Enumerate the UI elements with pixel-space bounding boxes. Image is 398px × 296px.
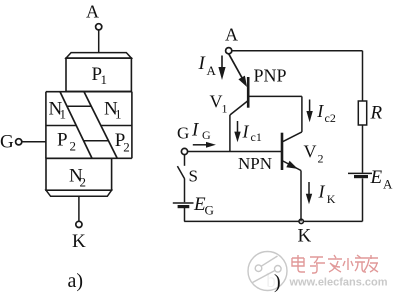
- svg-text:I: I: [318, 182, 326, 202]
- svg-text:1: 1: [222, 101, 228, 115]
- svg-text:I: I: [242, 121, 250, 141]
- svg-text:G: G: [0, 132, 14, 153]
- svg-text:A: A: [207, 63, 217, 78]
- svg-text:2: 2: [318, 152, 324, 166]
- svg-text:PNP: PNP: [254, 66, 287, 86]
- svg-text:A: A: [86, 2, 99, 22]
- svg-text:A: A: [383, 177, 393, 192]
- svg-text:): ): [274, 271, 281, 293]
- svg-text:I: I: [316, 101, 324, 121]
- svg-text:2: 2: [80, 175, 87, 190]
- svg-text:www.elecfans.com: www.elecfans.com: [289, 277, 388, 289]
- svg-text:2: 2: [70, 139, 77, 154]
- svg-text:a): a): [68, 270, 84, 292]
- svg-text:V: V: [304, 142, 317, 162]
- svg-text:2: 2: [123, 139, 130, 154]
- svg-text:G: G: [202, 128, 211, 142]
- svg-text:G: G: [177, 124, 189, 143]
- svg-text:E: E: [370, 167, 383, 188]
- svg-text:1: 1: [115, 107, 122, 122]
- svg-text:c1: c1: [251, 130, 262, 144]
- svg-text:K: K: [298, 225, 312, 246]
- svg-text:S: S: [189, 167, 198, 186]
- svg-text:P: P: [57, 129, 68, 150]
- svg-text:K: K: [72, 231, 86, 252]
- svg-text:c2: c2: [325, 111, 336, 125]
- svg-text:G: G: [205, 202, 214, 217]
- svg-text:A: A: [225, 24, 238, 44]
- svg-text:1: 1: [101, 72, 108, 87]
- svg-text:R: R: [370, 103, 383, 124]
- svg-text:NPN: NPN: [238, 154, 272, 173]
- svg-text:1: 1: [60, 107, 67, 122]
- svg-text:K: K: [327, 192, 336, 206]
